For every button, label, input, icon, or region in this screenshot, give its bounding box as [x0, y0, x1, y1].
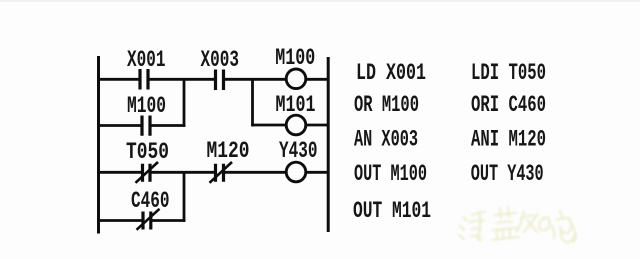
- slash of M120: [210, 162, 233, 183]
- svg-text:M120: M120: [207, 138, 250, 165]
- wire junction branch M101: [251, 78, 254, 127]
- svg-text:C460: C460: [131, 188, 170, 215]
- faint scanner edge band: [0, 0, 640, 2]
- contact C460 (NC): [143, 212, 151, 230]
- svg-text:OUT Y430: OUT Y430: [471, 161, 544, 188]
- svg-text:Y430: Y430: [279, 138, 318, 165]
- svg-text:X003: X003: [201, 47, 240, 74]
- svg-text:OR M100: OR M100: [354, 92, 419, 119]
- contact X003 (NO): [216, 70, 224, 91]
- wire junction branch 1: [183, 78, 186, 127]
- wire C460 branch: [97, 219, 186, 222]
- wire M101 branch: [251, 124, 329, 127]
- wire rung 1: [97, 78, 329, 81]
- right power rail: [327, 57, 330, 232]
- svg-text:ORI C460: ORI C460: [471, 92, 546, 119]
- svg-text:LDI T050: LDI T050: [471, 60, 546, 87]
- watermark (pale handwritten characters): [459, 207, 576, 242]
- contact M120 (NC): [216, 164, 224, 182]
- svg-text:OUT M101: OUT M101: [353, 198, 431, 225]
- slash of C460: [137, 209, 160, 230]
- contact T050 (NC): [143, 164, 151, 182]
- left power rail: [97, 56, 100, 234]
- wire rung 2: [97, 171, 329, 174]
- svg-text:AN X003: AN X003: [354, 127, 418, 154]
- coil M100: [286, 69, 306, 89]
- svg-text:M101: M101: [276, 92, 316, 119]
- coil Y430: [286, 162, 306, 182]
- svg-text:X001: X001: [127, 47, 166, 74]
- svg-text:ANI M120: ANI M120: [471, 127, 546, 154]
- coil M101: [286, 115, 306, 135]
- wire junction branch C460: [183, 171, 186, 222]
- contact M100 (NO): [142, 116, 150, 136]
- slash of T050: [136, 162, 159, 183]
- svg-text:M100: M100: [127, 93, 166, 120]
- contact X001 (NO): [140, 69, 148, 90]
- svg-text:OUT M100: OUT M100: [354, 161, 427, 188]
- wire M100 branch: [97, 124, 186, 127]
- svg-text:T050: T050: [126, 139, 169, 166]
- svg-text:LD X001: LD X001: [356, 60, 426, 87]
- svg-text:M100: M100: [275, 45, 315, 72]
